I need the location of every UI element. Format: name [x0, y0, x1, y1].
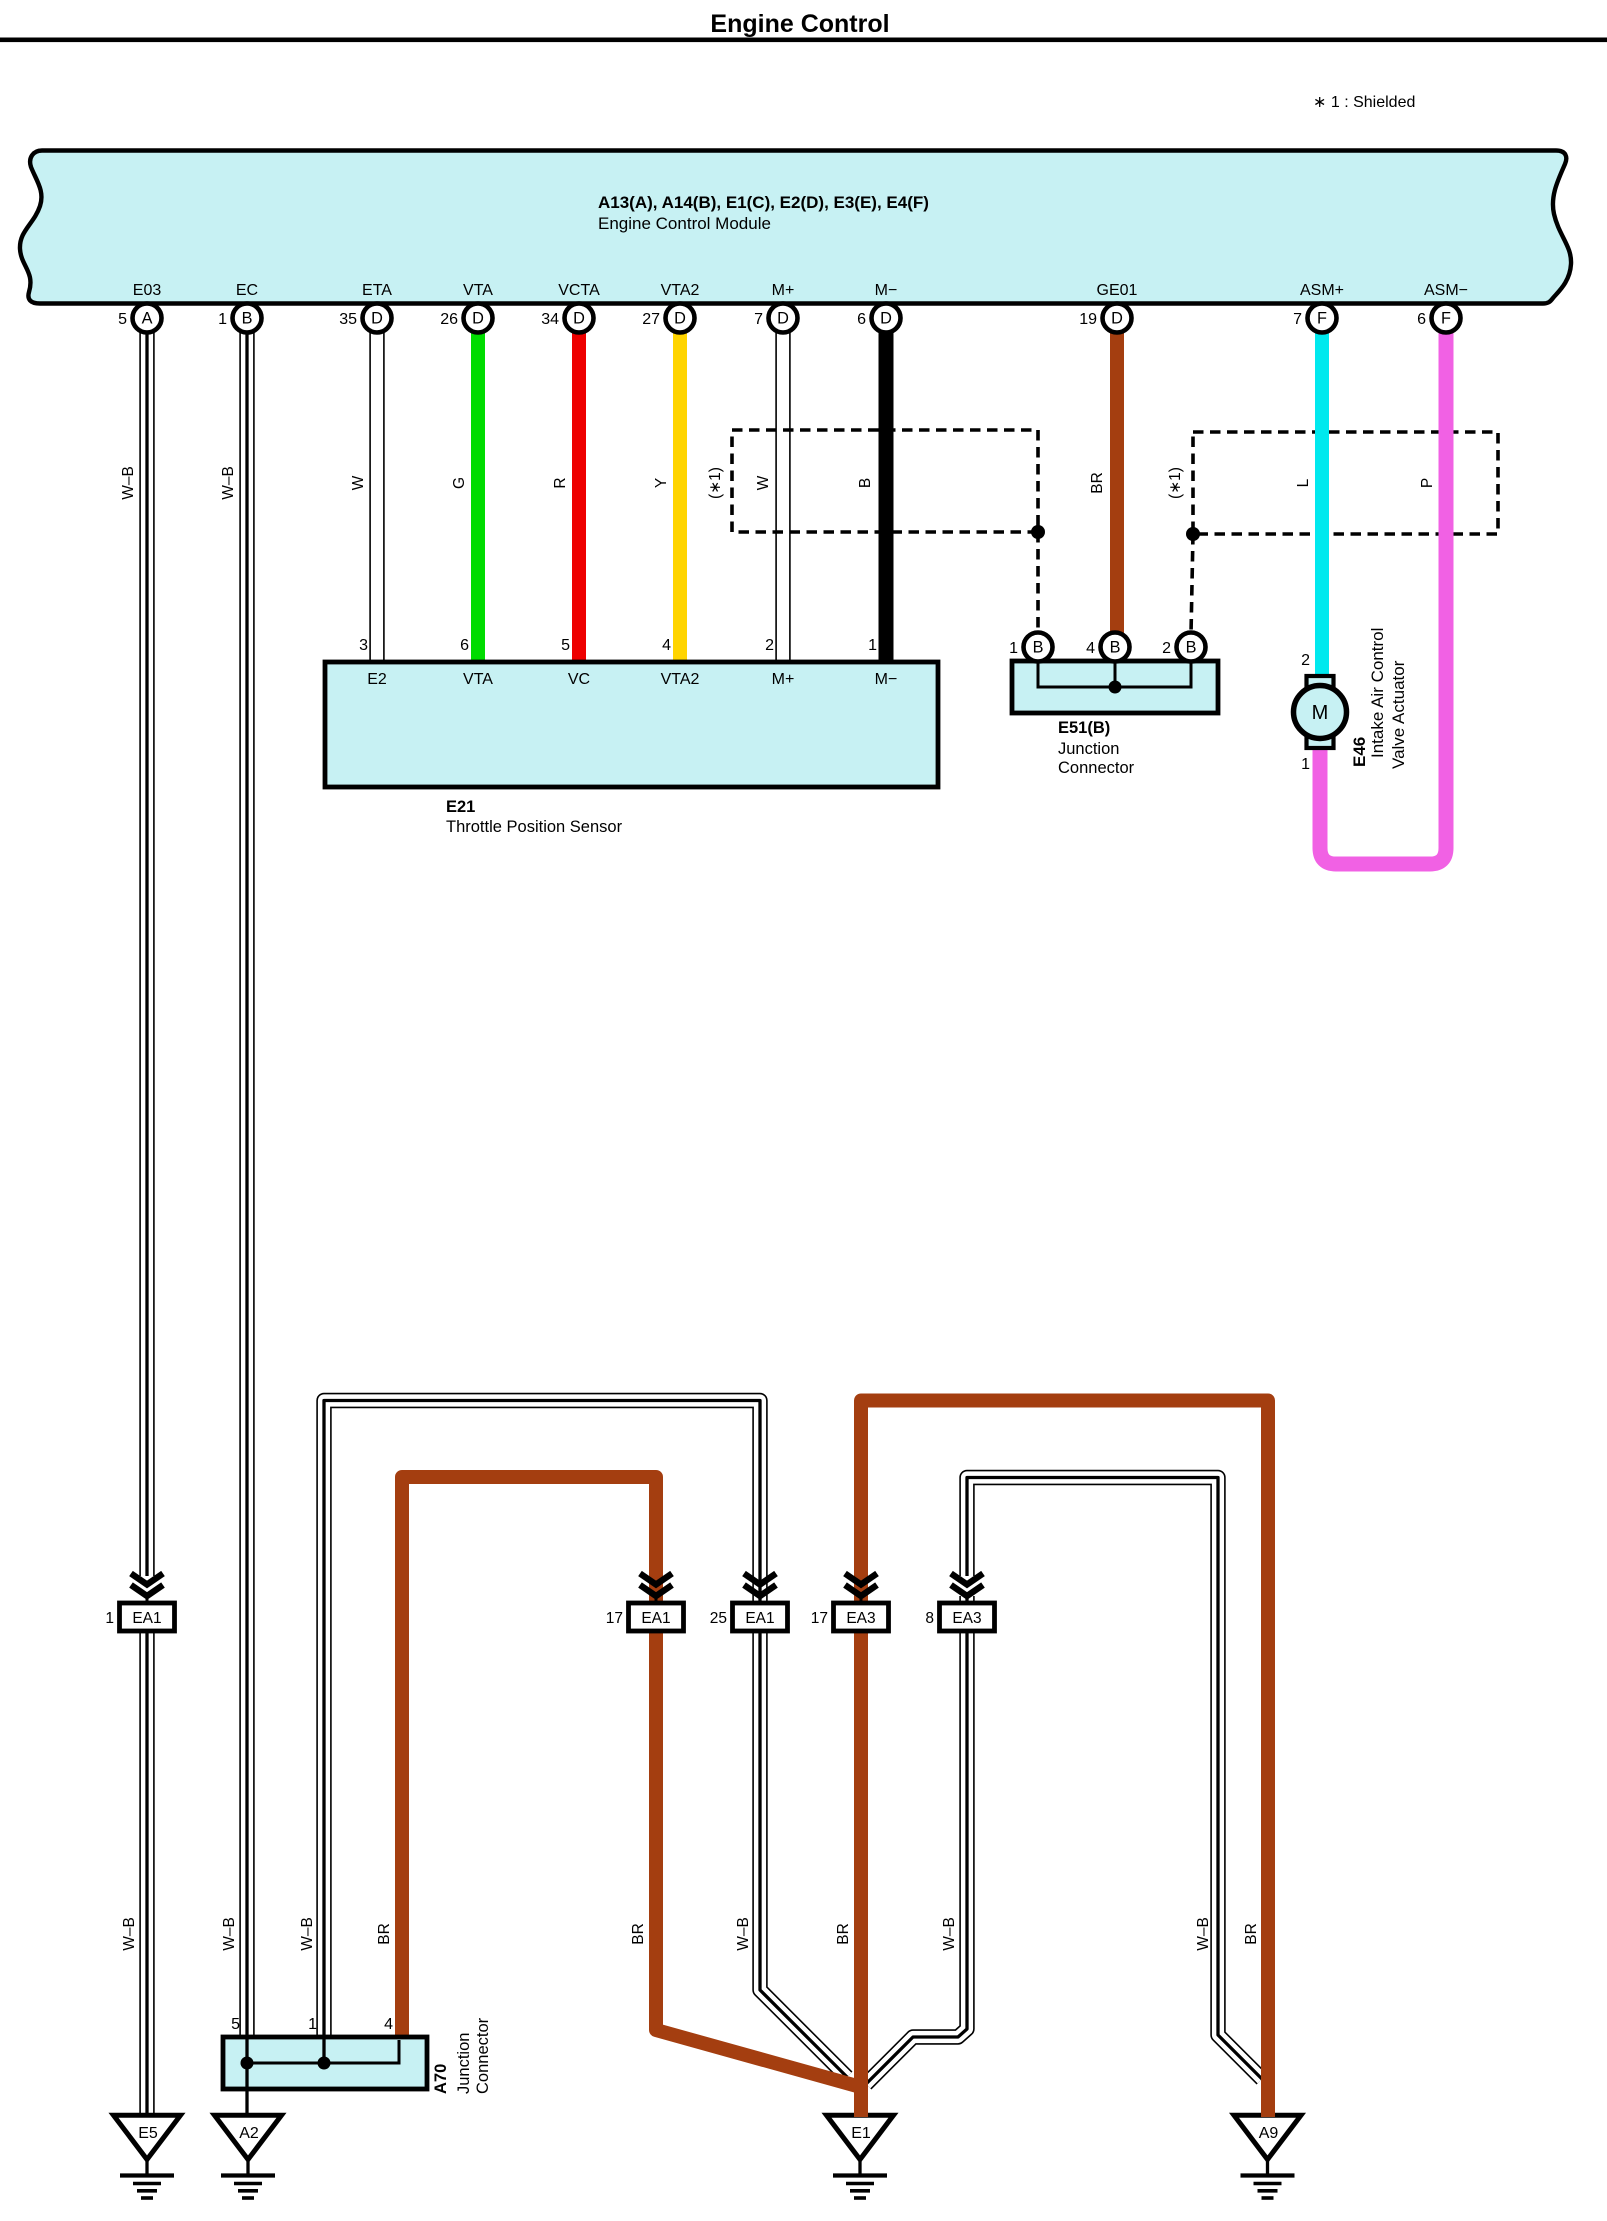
shield box (*1) around M+ / M- wires: [732, 430, 1038, 532]
svg-text:ASM−: ASM−: [1424, 282, 1468, 299]
wire W-B from ECM EC pin 1(B) down to junction A70 pin 5: [239, 318, 254, 2040]
ECM pin 35(D) ETA: [339, 304, 391, 333]
ECM pin 27(D) VTA2: [642, 304, 694, 333]
svg-text:BR: BR: [376, 1923, 393, 1945]
svg-text:D: D: [674, 310, 686, 328]
wire BR loop from ground E1 up through connector EA3 17 over and down to ground A9: [861, 1401, 1268, 2118]
svg-text:BR: BR: [630, 1923, 647, 1945]
E51 pin 4 circle B: [1086, 633, 1129, 662]
junction connector A70 box: [223, 2037, 427, 2089]
svg-text:Engine Control: Engine Control: [710, 10, 889, 38]
svg-text:B: B: [242, 310, 253, 328]
wire from A70 pin 5 to ground A2: [245, 2089, 248, 2116]
svg-text:D: D: [1111, 310, 1123, 328]
svg-text:W–B: W–B: [121, 1917, 138, 1951]
svg-text:1: 1: [1009, 640, 1018, 657]
svg-text:34: 34: [541, 311, 559, 328]
svg-text:B: B: [857, 478, 874, 488]
wire P from ECM ASM- pin 6(F) to actuator E46 pin 1: [1320, 318, 1446, 864]
ground E5: [114, 2115, 181, 2198]
wire G from ECM VTA pin 26(D) to E21 pin 6: [471, 318, 485, 664]
connector 8 EA3: [925, 1574, 994, 1632]
shield box (*1) around ASM+ / ASM- wires: [1193, 432, 1498, 534]
shield drain dashed wire to E51 pin 1: [1036, 532, 1040, 634]
svg-text:G: G: [451, 477, 468, 489]
ECM pin 5(A) E03: [118, 304, 161, 333]
svg-text:6: 6: [460, 637, 469, 654]
wire Y from ECM VTA2 pin 27(D) to E21 pin 4: [673, 318, 687, 664]
svg-text:VTA2: VTA2: [661, 282, 700, 299]
svg-text:F: F: [1317, 310, 1327, 328]
intake air control valve actuator E46 motor M: [1294, 676, 1347, 748]
svg-text:17: 17: [606, 1610, 623, 1627]
shield junction dot: [1031, 525, 1045, 539]
junction connector E51(B) box: [1012, 661, 1218, 713]
svg-text:2: 2: [765, 637, 774, 654]
svg-text:B: B: [1110, 639, 1121, 657]
svg-text:E5: E5: [138, 2125, 158, 2142]
svg-text:W–B: W–B: [1195, 1917, 1212, 1951]
svg-text:1: 1: [105, 1610, 114, 1627]
svg-text:W–B: W–B: [299, 1917, 316, 1951]
svg-text:4: 4: [1086, 640, 1095, 657]
svg-text:D: D: [777, 310, 789, 328]
svg-text:(∗1): (∗1): [707, 467, 724, 499]
svg-text:Intake Air Control: Intake Air Control: [1368, 628, 1387, 758]
svg-text:EA1: EA1: [641, 1610, 670, 1627]
ECM pin 7(D) M+: [754, 304, 797, 333]
svg-text:Connector: Connector: [1058, 759, 1135, 777]
wire W-B from ECM E03 pin 5(A) down to connector EA1: [139, 318, 154, 1576]
svg-text:Junction: Junction: [1058, 740, 1119, 758]
svg-text:Engine Control Module: Engine Control Module: [598, 214, 771, 233]
svg-text:5: 5: [561, 637, 570, 654]
svg-text:GE01: GE01: [1097, 282, 1138, 299]
ground A2: [215, 2115, 282, 2198]
svg-text:BR: BR: [1089, 472, 1106, 494]
ECM pin 19(D) GE01: [1079, 304, 1131, 333]
E51 pin 2 circle B: [1162, 633, 1205, 662]
connector 25 EA1: [710, 1574, 788, 1632]
connector 17 EA3: [811, 1574, 889, 1632]
svg-text:EC: EC: [236, 282, 258, 299]
svg-text:2: 2: [1162, 640, 1171, 657]
svg-text:VTA2: VTA2: [661, 671, 700, 688]
svg-text:27: 27: [642, 311, 660, 328]
svg-text:7: 7: [1293, 311, 1302, 328]
svg-text:Junction: Junction: [455, 2033, 473, 2094]
svg-text:E03: E03: [133, 282, 162, 299]
svg-text:4: 4: [662, 637, 671, 654]
svg-text:F: F: [1441, 310, 1451, 328]
svg-text:D: D: [880, 310, 892, 328]
svg-text:EA1: EA1: [745, 1610, 774, 1627]
svg-text:35: 35: [339, 311, 357, 328]
svg-text:E21: E21: [446, 798, 475, 816]
wire W from ECM ETA pin 35(D) to E21 pin 3: [369, 318, 384, 664]
svg-text:4: 4: [384, 2016, 393, 2033]
svg-text:Throttle Position Sensor: Throttle Position Sensor: [446, 818, 623, 836]
svg-text:ASM+: ASM+: [1300, 282, 1344, 299]
svg-text:P: P: [1419, 478, 1436, 488]
wire R from ECM VCTA pin 34(D) to E21 pin 5: [572, 318, 586, 664]
svg-text:A9: A9: [1259, 2125, 1279, 2142]
ground A9: [1234, 2115, 1301, 2198]
ground E1: [827, 2115, 894, 2198]
wire W-B from EA1 down to ground E5: [139, 1631, 154, 2114]
svg-text:W–B: W–B: [735, 1917, 752, 1951]
svg-text:R: R: [552, 477, 569, 488]
wire L from ECM ASM+ pin 7(F) to actuator E46 pin 2: [1315, 318, 1329, 680]
svg-text:B: B: [1186, 639, 1197, 657]
svg-text:A13(A), A14(B), E1(C), E2(D),: A13(A), A14(B), E1(C), E2(D), E3(E), E4(…: [598, 193, 929, 212]
svg-text:VCTA: VCTA: [558, 282, 600, 299]
svg-text:8: 8: [925, 1610, 934, 1627]
wire W from ECM M+ pin 7(D) to E21 pin 2: [775, 318, 790, 664]
svg-text:A70: A70: [432, 2064, 450, 2094]
wire BR loop from junction A70 pin 4 up over to connector EA1 17 and down to ground E1: [402, 1477, 857, 2086]
svg-text:W: W: [350, 475, 367, 490]
svg-text:Y: Y: [653, 478, 670, 488]
svg-text:E46: E46: [1350, 737, 1369, 767]
wire BR from ECM GE01 pin 19(D) to E51 pin 4: [1110, 318, 1124, 640]
ECM pin 6(D) M&#8722;: [857, 304, 900, 333]
ECM pin 6(F) ASM&#8722;: [1417, 304, 1460, 333]
svg-text:L: L: [1295, 478, 1312, 487]
svg-text:2: 2: [1301, 652, 1310, 669]
svg-text:19: 19: [1079, 311, 1097, 328]
title rule: [0, 38, 1607, 43]
ECM pin 34(D) VCTA: [541, 304, 593, 333]
svg-text:BR: BR: [1243, 1923, 1260, 1945]
svg-text:A: A: [142, 310, 153, 328]
svg-text:∗ 1 : Shielded: ∗ 1 : Shielded: [1313, 94, 1415, 111]
svg-text:M: M: [1312, 702, 1329, 724]
svg-text:M+: M+: [772, 282, 795, 299]
svg-text:M−: M−: [875, 282, 898, 299]
svg-text:W–B: W–B: [941, 1917, 958, 1951]
svg-text:1: 1: [308, 2016, 317, 2033]
svg-text:1: 1: [218, 311, 227, 328]
svg-text:E51(B): E51(B): [1058, 719, 1110, 737]
wire W-B loop from connector EA3 8 up over and down to ground A9: [967, 1478, 1262, 2080]
svg-text:6: 6: [1417, 311, 1426, 328]
svg-text:EA1: EA1: [132, 1610, 161, 1627]
svg-text:5: 5: [231, 2016, 240, 2033]
svg-text:VTA: VTA: [463, 282, 493, 299]
throttle position sensor E21 box: [325, 662, 938, 787]
svg-text:7: 7: [754, 311, 763, 328]
svg-text:Connector: Connector: [474, 2017, 492, 2094]
svg-text:W–B: W–B: [221, 1917, 238, 1951]
svg-text:E1: E1: [851, 2125, 871, 2142]
svg-text:(∗1): (∗1): [1167, 467, 1184, 499]
svg-text:W–B: W–B: [220, 466, 237, 500]
svg-text:M+: M+: [772, 671, 795, 688]
ECM band A13(A), A14(B), E1(C), E2(D), E3(E), E4(F) Engine Control Module: [20, 151, 1571, 304]
wire W-B from connector EA3 8 down to ground E1: [866, 1596, 967, 2084]
svg-text:D: D: [472, 310, 484, 328]
svg-text:D: D: [371, 310, 383, 328]
shield junction dot: [1186, 527, 1200, 541]
svg-text:25: 25: [710, 1610, 727, 1627]
wire W-B loop from junction A70 pin 1 up over to connector EA1 25 and down to ground E1: [324, 1401, 847, 2078]
svg-text:W: W: [755, 475, 772, 490]
svg-text:3: 3: [359, 637, 368, 654]
svg-text:D: D: [573, 310, 585, 328]
connector 1 EA1: [105, 1574, 174, 1632]
svg-text:EA3: EA3: [846, 1610, 875, 1627]
svg-text:M−: M−: [875, 671, 898, 688]
svg-text:ETA: ETA: [362, 282, 392, 299]
connector 17 EA1: [606, 1574, 684, 1632]
ECM pin 1(B) EC: [218, 304, 261, 333]
E51 pin 1 circle B: [1009, 633, 1052, 662]
svg-text:W–B: W–B: [120, 466, 137, 500]
ECM pin 7(F) ASM+: [1293, 304, 1336, 333]
svg-text:1: 1: [868, 637, 877, 654]
svg-text:VTA: VTA: [463, 671, 493, 688]
ECM pin 26(D) VTA: [440, 304, 492, 333]
svg-text:EA3: EA3: [952, 1610, 981, 1627]
svg-text:1: 1: [1301, 756, 1310, 773]
svg-text:B: B: [1033, 639, 1044, 657]
svg-text:6: 6: [857, 311, 866, 328]
svg-text:BR: BR: [835, 1923, 852, 1945]
shield drain dashed wire to E51 pin 2: [1191, 534, 1193, 634]
svg-text:26: 26: [440, 311, 458, 328]
svg-text:E2: E2: [367, 671, 387, 688]
svg-text:VC: VC: [568, 671, 590, 688]
svg-text:17: 17: [811, 1610, 828, 1627]
svg-text:A2: A2: [239, 2125, 259, 2142]
svg-text:5: 5: [118, 311, 127, 328]
wire B from ECM M- pin 6(D) to E21 pin 1: [879, 318, 894, 664]
svg-text:Valve Actuator: Valve Actuator: [1389, 660, 1408, 769]
